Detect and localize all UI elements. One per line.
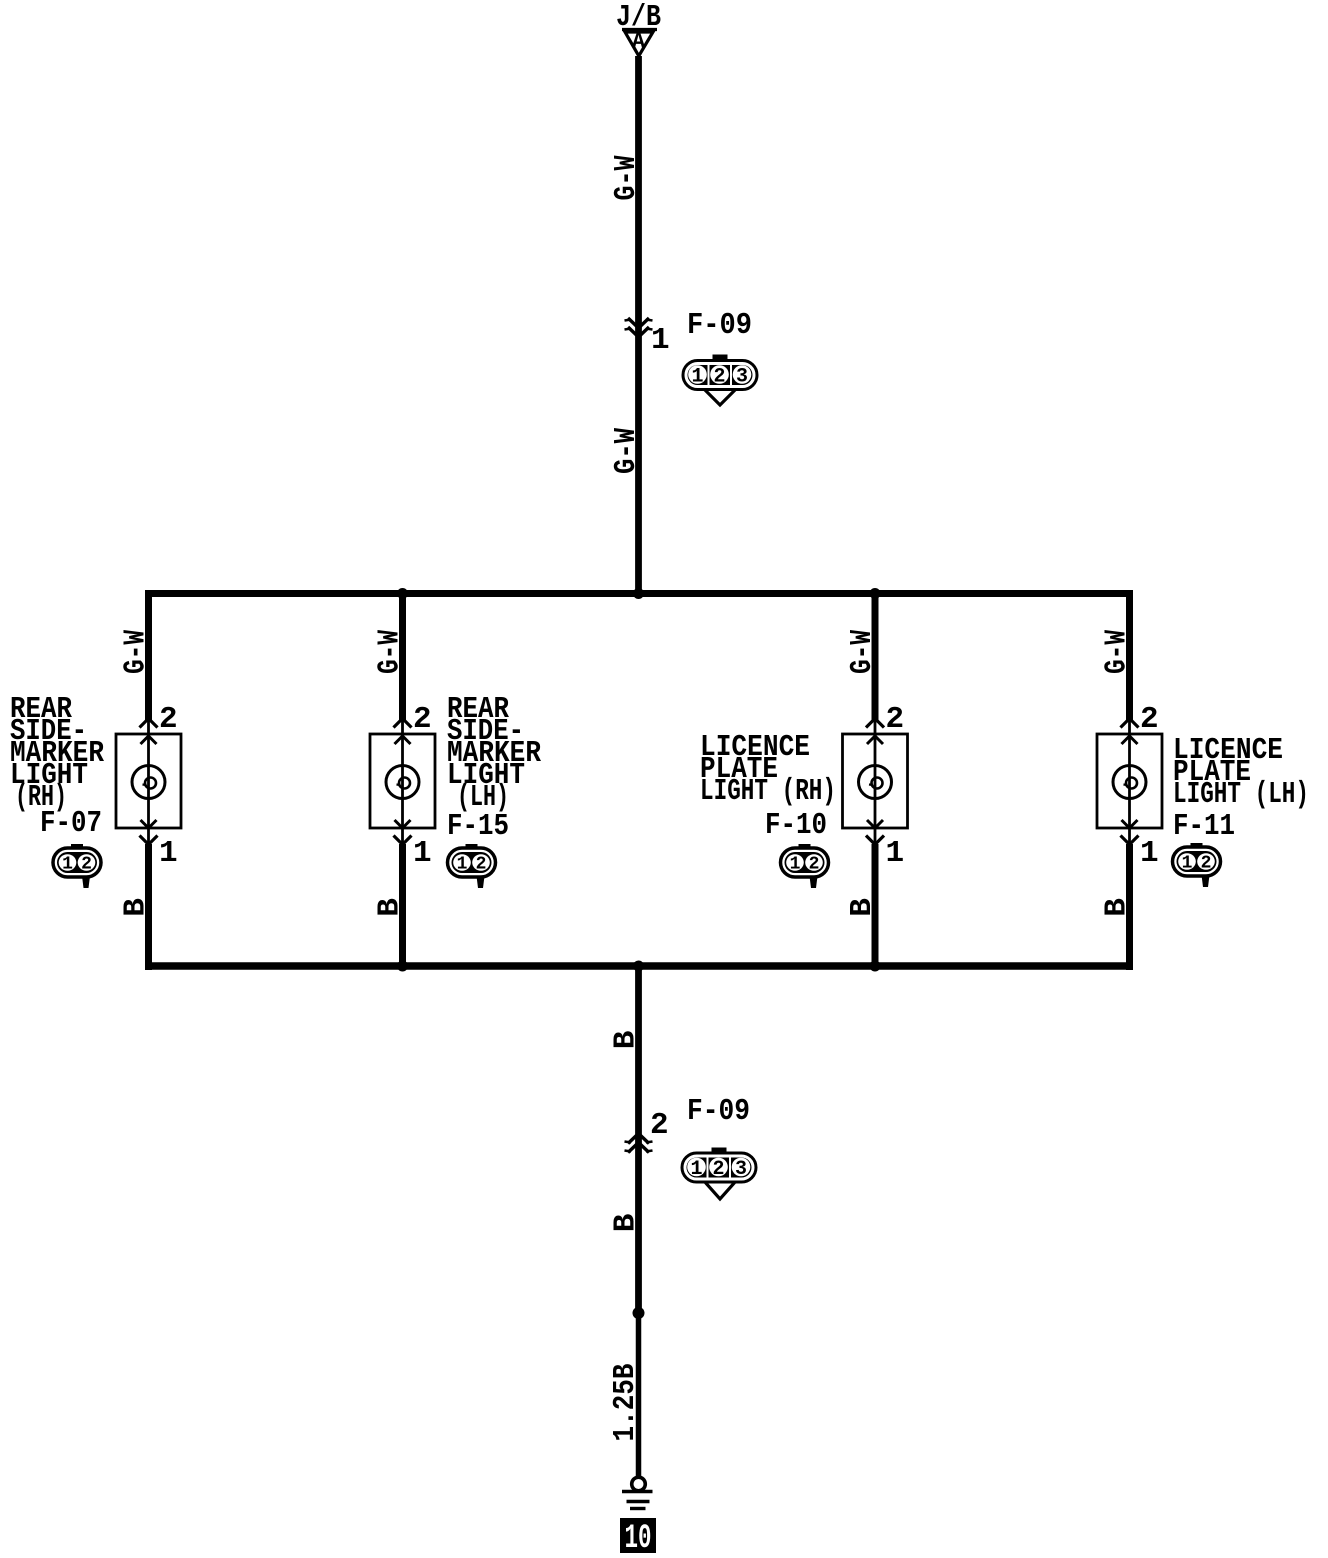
- svg-text:F-09: F-09: [687, 308, 752, 343]
- connector arrows at pin 2 of F-15: [394, 719, 412, 745]
- wire B branch 3: [872, 844, 879, 970]
- svg-text:2: 2: [886, 702, 905, 737]
- wire B from bottom splice to F-09 pin 2: [635, 966, 642, 1143]
- junction block connector A symbol: [622, 30, 657, 57]
- connector arrows at pin 1 of F-07: [140, 820, 158, 845]
- svg-text:G-W: G-W: [845, 630, 880, 674]
- connector arrows at pin 2 of F-11: [1121, 719, 1139, 745]
- wire 1.25B to ground: [636, 1313, 642, 1478]
- svg-text:2: 2: [476, 855, 487, 875]
- svg-text:2: 2: [809, 855, 820, 875]
- wire B from F-09 pin 2 to splice: [635, 1143, 642, 1313]
- svg-text:G-W: G-W: [1100, 630, 1135, 674]
- svg-text:F-10: F-10: [765, 808, 827, 843]
- wire G-W branch 4: [1126, 590, 1133, 721]
- svg-text:1: 1: [1140, 836, 1159, 871]
- connector arrows at pin 1 of F-15: [394, 820, 412, 845]
- svg-text:1: 1: [62, 855, 73, 875]
- connector arrows at pin 1 of F-11: [1121, 820, 1139, 845]
- wire G-W branch 2: [399, 590, 406, 721]
- svg-text:1: 1: [886, 836, 905, 871]
- svg-text:G-W: G-W: [119, 630, 154, 674]
- node top bus at branch 2: [397, 588, 408, 599]
- svg-text:G-W: G-W: [609, 428, 644, 474]
- wire B branch 1: [145, 844, 152, 970]
- wire G-W branch 3: [872, 590, 879, 721]
- node splice bottom center: [633, 961, 644, 972]
- lamp REAR SIDE-MARKER LIGHT (LH): [370, 721, 435, 843]
- svg-text:1: 1: [691, 366, 703, 389]
- wire B branch 4: [1126, 844, 1133, 970]
- svg-text:1: 1: [159, 836, 178, 871]
- connector arrows at pin 1 of F-10: [866, 820, 884, 845]
- wire B branch 2: [399, 844, 406, 970]
- node bottom bus at branch 3: [870, 961, 881, 972]
- svg-text:3: 3: [736, 366, 748, 389]
- connector F-15 symbol (2-pin): [448, 844, 496, 888]
- ground reference box 10: [620, 1518, 656, 1558]
- node bottom bus at branch 2: [397, 961, 408, 972]
- svg-text:LIGHT (RH): LIGHT (RH): [700, 774, 836, 809]
- connector F-09 symbol (3-pin, bottom): [682, 1148, 756, 1200]
- svg-text:B: B: [1100, 898, 1135, 917]
- svg-text:F-15: F-15: [447, 809, 509, 844]
- svg-text:B: B: [609, 1031, 644, 1050]
- svg-text:1: 1: [790, 855, 801, 875]
- svg-text:2: 2: [650, 1108, 669, 1143]
- svg-text:F-09: F-09: [687, 1094, 750, 1129]
- label REAR SIDE-MARKER LIGHT (RH): [10, 692, 104, 815]
- label REAR SIDE-MARKER LIGHT (LH): [447, 692, 541, 815]
- svg-text:1: 1: [413, 836, 432, 871]
- node top bus at branch 3: [870, 588, 881, 599]
- svg-text:B: B: [845, 898, 880, 917]
- svg-text:B: B: [119, 898, 154, 917]
- label LICENCE PLATE LIGHT (RH): [700, 730, 836, 809]
- ground symbol: [622, 1477, 653, 1508]
- svg-text:B: B: [373, 898, 408, 917]
- svg-text:B: B: [609, 1214, 644, 1233]
- svg-text:3: 3: [735, 1158, 747, 1181]
- wire G-W from F-09 pin 1 to top splice: [635, 330, 642, 596]
- connector F-11 symbol (2-pin): [1173, 843, 1221, 887]
- svg-text:2: 2: [1201, 854, 1212, 874]
- svg-text:F-07: F-07: [40, 806, 102, 841]
- svg-text:2: 2: [159, 702, 178, 737]
- in-line connector F-09 pin 1 separation arrows: [625, 318, 653, 337]
- svg-text:1: 1: [1182, 854, 1193, 874]
- svg-text:2: 2: [413, 702, 432, 737]
- svg-text:10: 10: [625, 1520, 652, 1558]
- wire top bus: [145, 590, 1133, 597]
- svg-text:1: 1: [651, 323, 670, 358]
- connector F-09 symbol (3-pin, top): [683, 355, 757, 406]
- svg-text:2: 2: [712, 1158, 724, 1181]
- wire G-W branch 1: [145, 590, 152, 721]
- svg-text:LIGHT (LH): LIGHT (LH): [1173, 777, 1309, 812]
- lamp LICENCE PLATE LIGHT (RH): [843, 721, 908, 843]
- in-line connector F-09 pin 2 separation arrows: [625, 1134, 653, 1153]
- svg-text:2: 2: [81, 855, 92, 875]
- lamp REAR SIDE-MARKER LIGHT (RH): [116, 721, 181, 843]
- connector arrows at pin 2 of F-10: [866, 719, 884, 745]
- lamp LICENCE PLATE LIGHT (LH): [1097, 721, 1162, 843]
- node splice top center: [633, 588, 644, 599]
- wire G-W from J/B A to F-09 pin 1: [635, 56, 642, 330]
- node splice before ground: [633, 1307, 645, 1319]
- svg-text:1: 1: [457, 855, 468, 875]
- svg-text:1: 1: [690, 1158, 702, 1181]
- connector F-10 symbol (2-pin): [781, 844, 829, 888]
- svg-text:2: 2: [713, 366, 725, 389]
- svg-text:G-W: G-W: [609, 155, 644, 200]
- connector arrows at pin 2 of F-07: [140, 719, 158, 745]
- label LICENCE PLATE LIGHT (LH): [1173, 733, 1309, 812]
- svg-text:1.25B: 1.25B: [608, 1364, 643, 1442]
- svg-text:A: A: [632, 30, 646, 55]
- connector F-07 symbol (2-pin): [53, 844, 101, 888]
- wire bottom bus: [145, 962, 1133, 970]
- svg-text:G-W: G-W: [373, 630, 408, 674]
- svg-text:2: 2: [1140, 702, 1159, 737]
- svg-text:F-11: F-11: [1173, 809, 1235, 844]
